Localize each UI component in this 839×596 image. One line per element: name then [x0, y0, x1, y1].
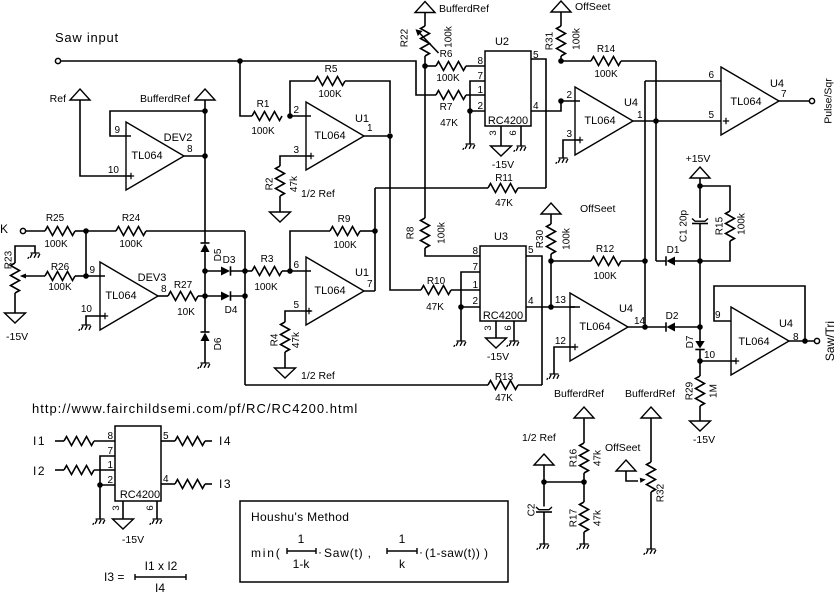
- wire DEV2 pin9 loop: [110, 111, 205, 136]
- svg-text:R12: R12: [596, 244, 615, 255]
- ground ref pin6: [150, 519, 162, 525]
- resistor I1 input: [55, 437, 115, 446]
- label I1: [33, 434, 46, 448]
- node U4a pin2 junction: [558, 98, 564, 104]
- svg-text:8: 8: [472, 246, 478, 257]
- svg-text:7: 7: [781, 89, 787, 100]
- svg-text:TL064: TL064: [584, 115, 615, 127]
- svg-text:10: 10: [108, 165, 120, 176]
- wire DEV3 pin9 stub: [86, 275, 105, 277]
- wire Ref to DEV2 pin10: [80, 100, 134, 179]
- label I3: [219, 477, 232, 491]
- svg-text:R1: R1: [257, 99, 270, 110]
- svg-text:2: 2: [293, 105, 299, 116]
- wire R24 column: [244, 231, 246, 385]
- capacitor C2: [527, 482, 553, 544]
- pin 1 label U2: [477, 85, 483, 96]
- pin 5 label ref: [163, 431, 169, 442]
- resistor R7: [436, 91, 485, 130]
- wire ref pin7-1-2 jog: [100, 456, 115, 485]
- svg-text:min(: min(: [251, 546, 282, 560]
- pin 3 label U4a: [566, 129, 572, 140]
- op-amp U1 first half: [306, 102, 373, 170]
- ground at R23 top: [28, 253, 40, 259]
- diode D7: [685, 327, 705, 361]
- svg-text:1/2 Ref: 1/2 Ref: [301, 370, 335, 382]
- svg-text:R16: R16: [569, 448, 580, 467]
- node U2 pin2 junction: [467, 108, 473, 114]
- node K junction: [83, 228, 89, 234]
- svg-text:47k: 47k: [289, 175, 300, 192]
- label I3 formula: [104, 559, 186, 595]
- wire ref pin2 ground: [99, 485, 101, 519]
- svg-text:U4: U4: [779, 318, 793, 330]
- pin 4 label ref: [163, 474, 169, 485]
- svg-text:I4: I4: [155, 581, 165, 595]
- node U3 pin2 junction: [458, 304, 464, 310]
- svg-text:6: 6: [508, 130, 519, 135]
- svg-text:9: 9: [114, 125, 120, 136]
- svg-text:D2: D2: [666, 311, 679, 322]
- svg-text:R15: R15: [715, 216, 726, 235]
- svg-text:9: 9: [89, 265, 95, 276]
- label I4: [219, 434, 232, 448]
- ground below R17: [577, 544, 589, 550]
- node U4d pin10 junction: [697, 358, 703, 364]
- multiplier U3 RC4200: [480, 231, 526, 322]
- svg-text:I2: I2: [33, 464, 46, 478]
- op-amp DEV2: [126, 122, 193, 190]
- svg-text:-15V: -15V: [487, 351, 509, 363]
- power BufferdRef at R22: [415, 2, 489, 16]
- svg-text:Houshu's Method: Houshu's Method: [251, 510, 349, 524]
- svg-text:10: 10: [704, 350, 716, 361]
- node R30/R12 junction: [548, 258, 554, 264]
- svg-text:47K: 47K: [440, 118, 458, 129]
- ground U2 pin6: [514, 146, 526, 152]
- svg-text:4: 4: [528, 296, 534, 307]
- svg-text:1: 1: [367, 123, 373, 134]
- node DEV2 loop junction: [202, 108, 208, 114]
- svg-text:http://www.fairchildsemi.com/p: http://www.fairchildsemi.com/pf/RC/RC420…: [32, 401, 358, 416]
- node D3 right junction: [242, 268, 248, 274]
- wire U1 output: [364, 136, 421, 290]
- svg-text:8: 8: [187, 144, 193, 155]
- pin 3 label U2: [488, 130, 499, 135]
- svg-text:2: 2: [107, 475, 113, 486]
- power -15V under R23: [5, 293, 29, 343]
- wire 1/2 Ref column: [543, 465, 545, 482]
- svg-text:R6: R6: [440, 49, 453, 60]
- svg-text:R5: R5: [325, 64, 338, 75]
- resistor R14: [561, 44, 656, 80]
- resistor R24: [86, 213, 245, 250]
- wire U4a pin2 stub: [561, 100, 580, 102]
- svg-text:1: 1: [298, 532, 305, 546]
- wire divider row: [544, 481, 584, 483]
- node R31/R14 junction: [558, 58, 564, 64]
- svg-text:TL064: TL064: [730, 96, 761, 108]
- node ref pin2 junction: [97, 482, 103, 488]
- resistor R15: [700, 186, 748, 261]
- svg-text:OffSeet: OffSeet: [605, 442, 640, 454]
- wire U2 pin7-1-2 jog: [470, 81, 485, 111]
- svg-text:47K: 47K: [426, 302, 444, 313]
- node U4d output junction: [802, 338, 808, 344]
- pin 3 label U3: [483, 325, 494, 330]
- wire U3 pin6 ground: [513, 321, 515, 341]
- pin 2 label U2: [477, 101, 483, 112]
- input terminal Saw input: [55, 58, 60, 63]
- svg-text:100K: 100K: [594, 69, 618, 80]
- pin 2 label U3: [472, 296, 478, 307]
- power -15V under R29: [690, 421, 716, 446]
- wire U1 pin3 stub: [280, 153, 314, 166]
- wire U4c pin6 row: [645, 80, 721, 82]
- svg-text:-15V: -15V: [122, 534, 144, 546]
- resistor R11: [488, 173, 546, 209]
- pin 2 label ref: [107, 475, 113, 486]
- svg-text:OffSeet: OffSeet: [575, 1, 610, 13]
- svg-text:100K: 100K: [48, 282, 72, 293]
- svg-text:1M: 1M: [709, 384, 720, 398]
- svg-text:100k: 100k: [572, 27, 583, 50]
- diode D2: [645, 311, 700, 332]
- pin 8 label U2: [477, 56, 483, 67]
- pin 7 label U2: [477, 71, 483, 82]
- pin 3 label ref: [111, 505, 122, 510]
- svg-text:R7: R7: [440, 102, 453, 113]
- pin 2 label U4a: [566, 90, 572, 101]
- multiplier U2 RC4200: [485, 36, 531, 127]
- pin 4 label U2: [533, 101, 539, 112]
- wire U4b pin13 stub: [570, 306, 575, 308]
- node D4 left junction: [202, 293, 208, 299]
- resistor R2: [265, 166, 301, 196]
- node U4a output junction: [653, 118, 659, 124]
- potentiometer R23: [4, 246, 46, 293]
- op-amp U4 first section: [575, 87, 643, 155]
- resistor R4: [270, 322, 303, 352]
- svg-text:100K: 100K: [251, 126, 275, 137]
- ground U3 pin6: [507, 341, 519, 347]
- svg-text:2: 2: [472, 296, 478, 307]
- resistor R17: [569, 482, 604, 544]
- resistor R9: [330, 214, 375, 251]
- ground DEV3 pin10: [79, 325, 91, 331]
- wire U1 pin2 stub: [290, 115, 311, 117]
- resistor R6: [425, 49, 485, 84]
- svg-text:R32: R32: [656, 483, 667, 502]
- svg-text:I1 x I2: I1 x I2: [145, 559, 178, 573]
- svg-text:R24: R24: [122, 213, 141, 224]
- power -15V at reference: [113, 501, 145, 546]
- svg-text:TL064: TL064: [105, 290, 136, 302]
- svg-text:100k: 100k: [437, 221, 448, 244]
- pin 5 label U3: [528, 245, 534, 256]
- svg-text:Pulse/Sqr: Pulse/Sqr: [823, 78, 835, 124]
- pin 10 label DEV2: [108, 165, 120, 176]
- svg-text:3: 3: [566, 129, 572, 140]
- svg-text:Saw/Tri: Saw/Tri: [823, 321, 837, 361]
- svg-text:R9: R9: [338, 214, 351, 225]
- wire U4a pin3 ground: [563, 137, 583, 158]
- svg-text:I1: I1: [33, 434, 46, 448]
- node D4 right junction: [242, 293, 248, 299]
- node saw/R1 junction: [237, 58, 243, 64]
- svg-text:U1: U1: [355, 267, 369, 279]
- svg-text:DEV2: DEV2: [164, 132, 193, 144]
- svg-text:6: 6: [293, 260, 299, 271]
- svg-text:3: 3: [111, 505, 122, 510]
- wire ref pin6 ground: [156, 501, 158, 519]
- node R12 junction: [642, 258, 648, 264]
- ground U3 pin2: [454, 341, 466, 347]
- svg-text:DEV3: DEV3: [138, 272, 167, 284]
- wire U4b output: [628, 326, 645, 328]
- resistor R10: [421, 276, 480, 313]
- node U4b pin13 junction: [548, 304, 554, 310]
- svg-text:OffSeet: OffSeet: [580, 203, 615, 215]
- svg-text:R13: R13: [495, 372, 514, 383]
- svg-text:TL064: TL064: [314, 130, 345, 142]
- node D2 anode junction: [697, 324, 703, 330]
- resistor R25: [26, 213, 86, 250]
- svg-text:TL064: TL064: [131, 150, 162, 162]
- svg-text:R11: R11: [495, 173, 513, 184]
- svg-text:1: 1: [477, 85, 483, 96]
- wire R32 wiper: [626, 471, 646, 483]
- box Houshu's Method: [240, 501, 508, 582]
- svg-text:100k: 100k: [444, 25, 455, 48]
- svg-text:100K: 100K: [436, 73, 460, 84]
- wire R30 column: [550, 261, 552, 307]
- wire R5 feedback loop: [290, 81, 390, 133]
- wire R9 branch: [290, 231, 330, 271]
- svg-text:10: 10: [81, 304, 93, 315]
- svg-text:TL064: TL064: [738, 336, 769, 348]
- svg-text:C2: C2: [527, 503, 538, 516]
- resistor R30: [535, 214, 573, 261]
- svg-text:6: 6: [708, 70, 714, 81]
- svg-text:100K: 100K: [333, 240, 357, 251]
- potentiometer R22: [400, 13, 455, 67]
- wire U4d feedback loop: [714, 286, 805, 341]
- svg-text:U4: U4: [619, 303, 633, 315]
- pin 5 label U2: [533, 50, 539, 61]
- wire R1 branch: [240, 61, 252, 116]
- label min formula: [251, 532, 488, 571]
- pin 6 label ref: [145, 505, 156, 510]
- svg-text:8: 8: [107, 431, 113, 442]
- svg-text:100K: 100K: [44, 239, 68, 250]
- svg-text:I4: I4: [219, 434, 232, 448]
- pin 7 label ref: [107, 446, 113, 457]
- svg-text:100K: 100K: [119, 239, 143, 250]
- wire U4c output: [779, 100, 809, 102]
- svg-text:R23: R23: [4, 250, 15, 269]
- pin 6 label U3: [503, 325, 514, 330]
- svg-text:3: 3: [293, 145, 299, 156]
- wire DEV2 output: [184, 155, 205, 157]
- svg-text:Saw(t) ,: Saw(t) ,: [324, 546, 372, 560]
- svg-text:U3: U3: [494, 231, 508, 243]
- wire U4b pin12 ground: [554, 344, 578, 374]
- diode D6: [201, 332, 225, 350]
- svg-text:7: 7: [367, 279, 373, 290]
- svg-text:D6: D6: [213, 337, 224, 350]
- pin 6 label U1b: [293, 260, 299, 271]
- svg-text:8: 8: [477, 56, 483, 67]
- svg-text:R29: R29: [685, 381, 696, 400]
- power 1/2 Ref at R2: [270, 188, 335, 222]
- svg-text:R3: R3: [261, 254, 274, 265]
- op-amp U4 output section: [721, 67, 787, 135]
- wire R8 column: [424, 66, 426, 218]
- node R9/R11 junction: [372, 228, 378, 234]
- diode D4: [205, 291, 245, 316]
- power +15V: [686, 153, 711, 186]
- power OffSeet at R30: [541, 203, 615, 215]
- svg-text:RC4200: RC4200: [488, 115, 528, 127]
- svg-text:U4: U4: [624, 97, 638, 109]
- multiplier RC4200 reference: [115, 426, 161, 501]
- wire U1 pin6 stub: [290, 270, 311, 272]
- svg-text:100k: 100k: [737, 212, 748, 235]
- svg-text:(1-saw(t)) ): (1-saw(t)) ): [425, 546, 488, 560]
- svg-text:D3: D3: [223, 255, 236, 266]
- pin 9 label DEV2: [114, 125, 120, 136]
- power BufferdRef at DEV2: [140, 89, 215, 105]
- svg-text:100K: 100K: [254, 282, 278, 293]
- wire U2 pin5: [531, 59, 546, 188]
- resistor R12: [551, 244, 645, 282]
- label I2: [33, 464, 46, 478]
- input terminal K: [0, 222, 26, 236]
- ground U4a pin3: [556, 158, 568, 164]
- svg-text:100K: 100K: [593, 271, 617, 282]
- svg-text:R27: R27: [174, 280, 193, 291]
- resistor I2 input: [55, 466, 115, 475]
- diode D1: [656, 245, 700, 266]
- pin 2 label U1: [293, 105, 299, 116]
- svg-text:1: 1: [637, 110, 643, 121]
- pin 10 label U4d: [704, 350, 716, 361]
- svg-text:R4: R4: [270, 333, 281, 346]
- label Houshu's Method: [251, 510, 349, 524]
- label datasheet URL: [32, 401, 358, 416]
- svg-text:-15V: -15V: [693, 434, 715, 446]
- power OffSeet at R32: [605, 442, 640, 471]
- svg-text:1: 1: [107, 460, 113, 471]
- pin 8 label ref: [107, 431, 113, 442]
- svg-text:R30: R30: [535, 229, 546, 248]
- ground below C2: [537, 544, 549, 550]
- power Ref symbol: [50, 89, 90, 105]
- pin 1 label U3: [472, 280, 478, 291]
- svg-text:-15V: -15V: [6, 331, 28, 343]
- wire U2 pin6 ground: [520, 126, 522, 146]
- wire saw input line: [61, 61, 436, 95]
- svg-text:100K: 100K: [318, 89, 342, 100]
- node U1 pin2 junction: [287, 113, 293, 119]
- pin 6 label U2: [508, 130, 519, 135]
- svg-text:C1 20p: C1 20p: [679, 209, 690, 242]
- svg-text:R10: R10: [427, 276, 446, 287]
- svg-text:47K: 47K: [495, 198, 513, 209]
- resistor R5: [315, 64, 345, 100]
- output terminal Pulse/Sqr: [809, 78, 834, 124]
- svg-text:8: 8: [161, 284, 167, 295]
- ground U2 pin2: [463, 144, 475, 150]
- pin 10 label DEV3: [81, 304, 93, 315]
- svg-text:·: ·: [419, 545, 423, 559]
- op-amp U4 second section: [570, 293, 646, 361]
- svg-text:5: 5: [708, 110, 714, 121]
- pin 8 label U3: [472, 246, 478, 257]
- svg-text:1: 1: [472, 280, 478, 291]
- svg-text:R26: R26: [51, 262, 70, 273]
- wire R16 bottom: [583, 473, 585, 482]
- wire U3 pin5 to R13: [526, 256, 542, 385]
- wire D1-D2 column: [699, 261, 701, 327]
- node U1 pin6 junction: [287, 268, 293, 274]
- svg-text:3: 3: [483, 325, 494, 330]
- svg-text:47k: 47k: [593, 449, 604, 466]
- potentiometer R32: [647, 418, 667, 549]
- svg-text:I3: I3: [219, 477, 232, 491]
- resistor R31: [545, 12, 583, 61]
- svg-text:TL064: TL064: [579, 321, 610, 333]
- svg-text:3: 3: [488, 130, 499, 135]
- pin 5 label U4c: [708, 110, 714, 121]
- svg-text:5: 5: [293, 300, 299, 311]
- svg-text:13: 13: [555, 295, 567, 306]
- pin 4 label U3: [528, 296, 534, 307]
- pin 3 label U1: [293, 145, 299, 156]
- svg-text:D1: D1: [667, 245, 680, 256]
- svg-text:R31: R31: [545, 31, 556, 50]
- svg-text:1-k: 1-k: [293, 557, 311, 571]
- op-amp DEV3: [100, 262, 167, 330]
- node R16/R17 junction: [581, 479, 587, 485]
- wire U3 pin7-1-2 jog: [461, 272, 480, 307]
- resistor R8: [406, 218, 481, 256]
- svg-text:+15V: +15V: [686, 153, 711, 165]
- power 1/2 Ref at R4: [275, 352, 335, 382]
- power 1/2 Ref at C2: [522, 432, 556, 465]
- svg-text:RC4200: RC4200: [120, 489, 160, 501]
- node R22 junction: [422, 63, 428, 69]
- svg-text:R22: R22: [400, 28, 411, 47]
- node D3 left junction: [202, 268, 208, 274]
- resistor R29: [685, 361, 720, 421]
- svg-text:BufferdRef: BufferdRef: [625, 388, 675, 400]
- svg-text:Ref: Ref: [50, 93, 66, 105]
- svg-text:D7: D7: [685, 335, 696, 348]
- resistor I3 output: [161, 480, 212, 489]
- resistor R26: [45, 262, 86, 293]
- svg-text:R17: R17: [569, 508, 580, 527]
- svg-text:RC4200: RC4200: [483, 310, 523, 322]
- svg-text:47K: 47K: [495, 393, 513, 404]
- power BufferdRef at R32: [625, 388, 675, 418]
- wire R11 column: [364, 188, 375, 291]
- label Saw input: [55, 30, 119, 45]
- wire U4a output: [633, 120, 721, 122]
- svg-text:6: 6: [145, 505, 156, 510]
- svg-text:47k: 47k: [291, 331, 302, 348]
